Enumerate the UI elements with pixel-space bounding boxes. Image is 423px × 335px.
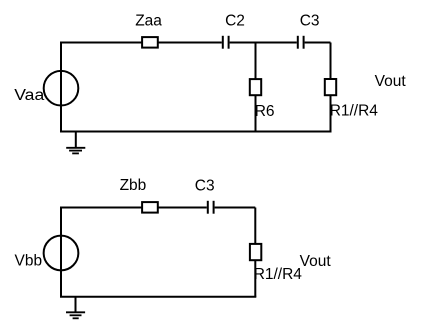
svg-text:Zaa: Zaa bbox=[135, 12, 162, 29]
svg-text:Vbb: Vbb bbox=[15, 252, 43, 269]
svg-text:R6: R6 bbox=[255, 103, 275, 120]
svg-text:Vout: Vout bbox=[300, 253, 332, 270]
svg-text:Zbb: Zbb bbox=[120, 177, 147, 194]
svg-text:R1//R4: R1//R4 bbox=[254, 266, 303, 283]
svg-text:C3: C3 bbox=[195, 178, 215, 195]
svg-text:R1//R4: R1//R4 bbox=[330, 103, 379, 120]
svg-text:C3: C3 bbox=[300, 13, 320, 30]
svg-text:Vout: Vout bbox=[375, 73, 407, 90]
svg-text:Vaa: Vaa bbox=[14, 87, 44, 104]
svg-text:C2: C2 bbox=[225, 13, 245, 30]
